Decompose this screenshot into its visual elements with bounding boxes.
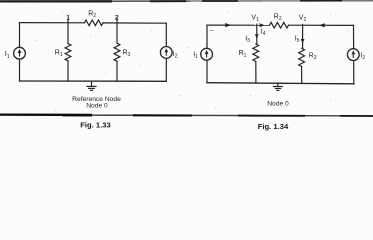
svg-text:1: 1	[66, 15, 70, 22]
svg-text:Fig. 1.33: Fig. 1.33	[80, 120, 110, 129]
svg-text:2: 2	[115, 14, 119, 21]
svg-text:Fig. 1.34: Fig. 1.34	[258, 122, 289, 131]
svg-text:Node 0: Node 0	[267, 100, 289, 107]
svg-text:Node 0: Node 0	[86, 102, 108, 109]
